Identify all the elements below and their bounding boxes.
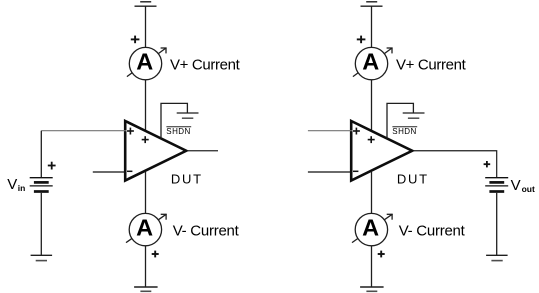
svg-text:in: in [18,183,26,193]
svg-text:SHDN: SHDN [392,127,416,136]
wire inverting input stub [93,171,127,173]
ground GND7 (below Vout) [486,255,508,260]
svg-text:out: out [522,184,535,194]
label SHDN (active-low overline) [166,127,191,136]
svg-text:V+ Current: V+ Current [170,56,241,73]
wire V+ supply rail (top ground to op-amp through ammeter) [145,6,147,131]
wire battery Vin bottom [40,193,42,255]
ground GND4 (bottom center-left) [134,287,158,291]
svg-text:A: A [362,215,379,241]
op-amp U1 DUT (left) [125,121,186,181]
svg-text:V: V [7,176,17,193]
ammeter A2 (V- current meter) [126,213,167,245]
wire SHDN pin to ground (right) [387,103,413,138]
wire output to Vout battery [414,151,497,178]
ammeter A3 (V+ current meter, right) [353,47,393,79]
node plus polarity mark (above ammeter A1) [131,36,140,44]
svg-text:V: V [511,177,521,194]
op-amp U2 DUT (right) [351,121,412,181]
wire inverting input stub (right) [308,171,353,173]
svg-text:V+ Current: V+ Current [396,56,467,73]
wire non-inverting input stub (gray, right) [308,130,353,132]
battery Vin [30,178,53,192]
battery Vout [485,178,508,192]
ground GND6 (SHDN, right) [403,113,425,118]
svg-text:V- Current: V- Current [173,222,240,239]
wire V- supply rail (right op-amp to bottom ground) [371,172,373,287]
node plus polarity mark (battery Vin) [48,162,56,170]
wire battery Vin top [40,131,42,178]
wire non-inverting input (gray) [41,130,126,132]
node plus polarity mark (below ammeter A2) [152,251,159,258]
ground GND5 (top, inverted) [361,2,383,6]
node plus polarity mark (battery Vout) [484,161,491,167]
label SHDN (active-low overline, right) [392,127,417,136]
svg-text:A: A [136,215,153,241]
ground GND8 (bottom center-right) [360,287,384,291]
svg-text:A: A [136,49,153,75]
label Vin [7,176,25,193]
wire output stub (left op-amp) [188,150,219,152]
pin + (V+ supply mark inside op-amp, right) [368,136,375,143]
wire V+ supply rail (right) [371,6,373,131]
node plus polarity mark (below ammeter A4) [378,251,385,258]
svg-text:DUT: DUT [397,172,429,187]
svg-text:SHDN: SHDN [166,127,190,136]
svg-text:V- Current: V- Current [399,222,466,239]
wire V- supply rail (op-amp to bottom ground through ammeter A2) [145,172,147,287]
node plus polarity mark (above ammeter A3) [357,36,366,44]
ground GND1 (top, inverted) [135,2,157,6]
ground GND2 (SHDN) [177,113,199,118]
ammeter A1 (V+ current meter) [127,47,167,79]
ammeter A4 (V- current meter, right) [352,213,393,245]
pin + (non-inverting input mark, right) [353,128,360,135]
pin - (inverting input mark) [127,170,132,172]
pin + (non-inverting input mark) [127,128,134,135]
wire SHDN pin to ground [161,103,187,138]
pin + (V+ supply mark inside op-amp) [142,136,149,143]
svg-text:DUT: DUT [171,172,203,187]
wire battery Vout bottom [496,193,498,255]
svg-text:A: A [362,49,379,75]
ground GND3 (below Vin) [31,255,52,260]
pin - (inverting input mark, right) [353,170,358,172]
label Vout [511,177,535,194]
